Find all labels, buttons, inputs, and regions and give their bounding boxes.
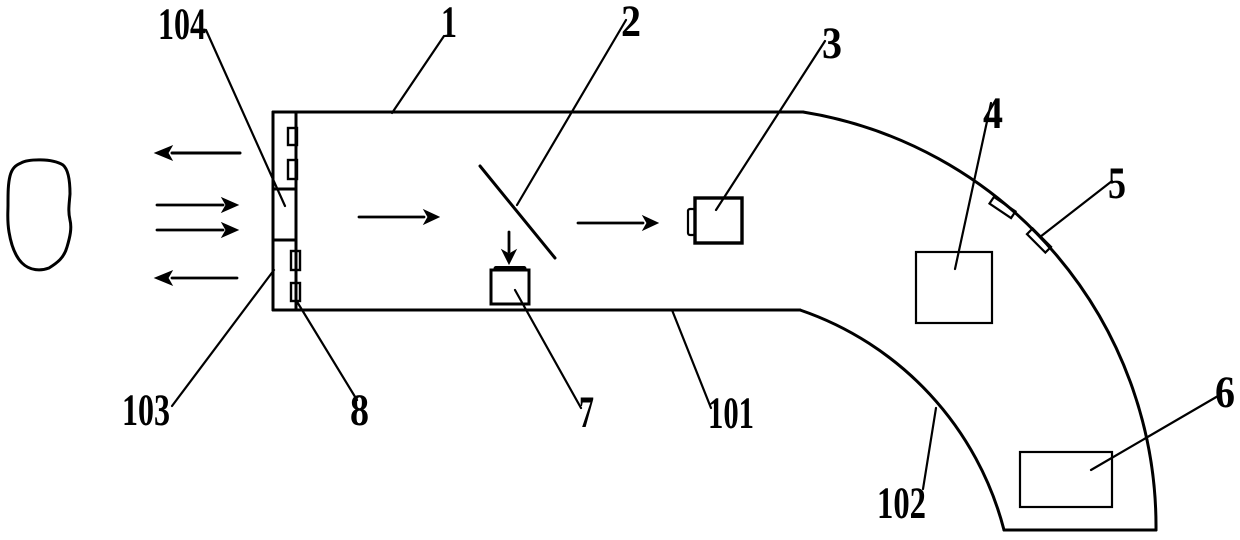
- svg-text:3: 3: [822, 18, 842, 68]
- airflow arrow in duct right: [578, 216, 658, 230]
- vent slot 1: [288, 128, 297, 145]
- svg-text:6: 6: [1215, 367, 1235, 417]
- module 6: [1020, 452, 1112, 507]
- svg-text:7: 7: [579, 387, 594, 437]
- svg-text:4: 4: [983, 88, 1003, 138]
- inflow arrow upper: [157, 198, 238, 212]
- leader 8: [296, 300, 357, 400]
- leader 104: [206, 30, 285, 206]
- leader 101: [672, 310, 711, 408]
- outflow arrow top-left: [155, 146, 240, 160]
- down arrow onto sensor 7: [502, 232, 516, 264]
- svg-text:2: 2: [621, 0, 641, 46]
- duct housing : outer curved wall: [803, 112, 1156, 530]
- inflow arrow lower: [157, 223, 238, 237]
- mirror plate 2: [480, 166, 555, 258]
- leader 4: [955, 103, 991, 269]
- vent element 5b: [1027, 228, 1051, 252]
- panel divider upper: [273, 188, 296, 191]
- svg-text:5: 5: [1108, 158, 1126, 208]
- leader 5: [1040, 181, 1112, 237]
- leader 3: [716, 41, 825, 210]
- duct bottom edge 101: [273, 309, 800, 312]
- duct housing 1 : top edge: [273, 111, 803, 114]
- svg-text:101: 101: [708, 388, 754, 438]
- duct left wall / panel left edge: [272, 112, 275, 310]
- leader 103: [172, 270, 274, 406]
- camera 3 body: [695, 198, 742, 243]
- duct housing : inner curved wall 102: [800, 310, 1004, 530]
- outflow arrow bottom-left: [155, 271, 237, 285]
- svg-text:1: 1: [441, 0, 457, 47]
- sensor 7 top cap: [496, 266, 524, 271]
- camera 3 lens tab: [688, 209, 695, 235]
- duct outlet bottom edge: [1004, 529, 1156, 532]
- svg-text:8: 8: [350, 385, 369, 435]
- leader 2: [517, 20, 626, 205]
- module 4: [916, 252, 992, 323]
- vent slot 4: [291, 283, 300, 301]
- panel inner edge: [295, 112, 298, 310]
- leader 6: [1091, 396, 1218, 470]
- face blob (user mouth outline): [8, 160, 71, 270]
- svg-text:104: 104: [158, 0, 206, 49]
- svg-text:102: 102: [877, 478, 926, 528]
- vent slot 3: [291, 251, 300, 270]
- leader 1: [392, 36, 444, 113]
- leader 7: [515, 290, 581, 408]
- vent element 5a: [989, 197, 1015, 218]
- leader 102: [923, 408, 936, 489]
- svg-text:103: 103: [122, 385, 170, 435]
- vent slot 2: [288, 160, 297, 179]
- sensor 7 body: [491, 270, 529, 304]
- panel divider lower: [273, 239, 296, 242]
- airflow arrow in duct left: [359, 210, 439, 224]
